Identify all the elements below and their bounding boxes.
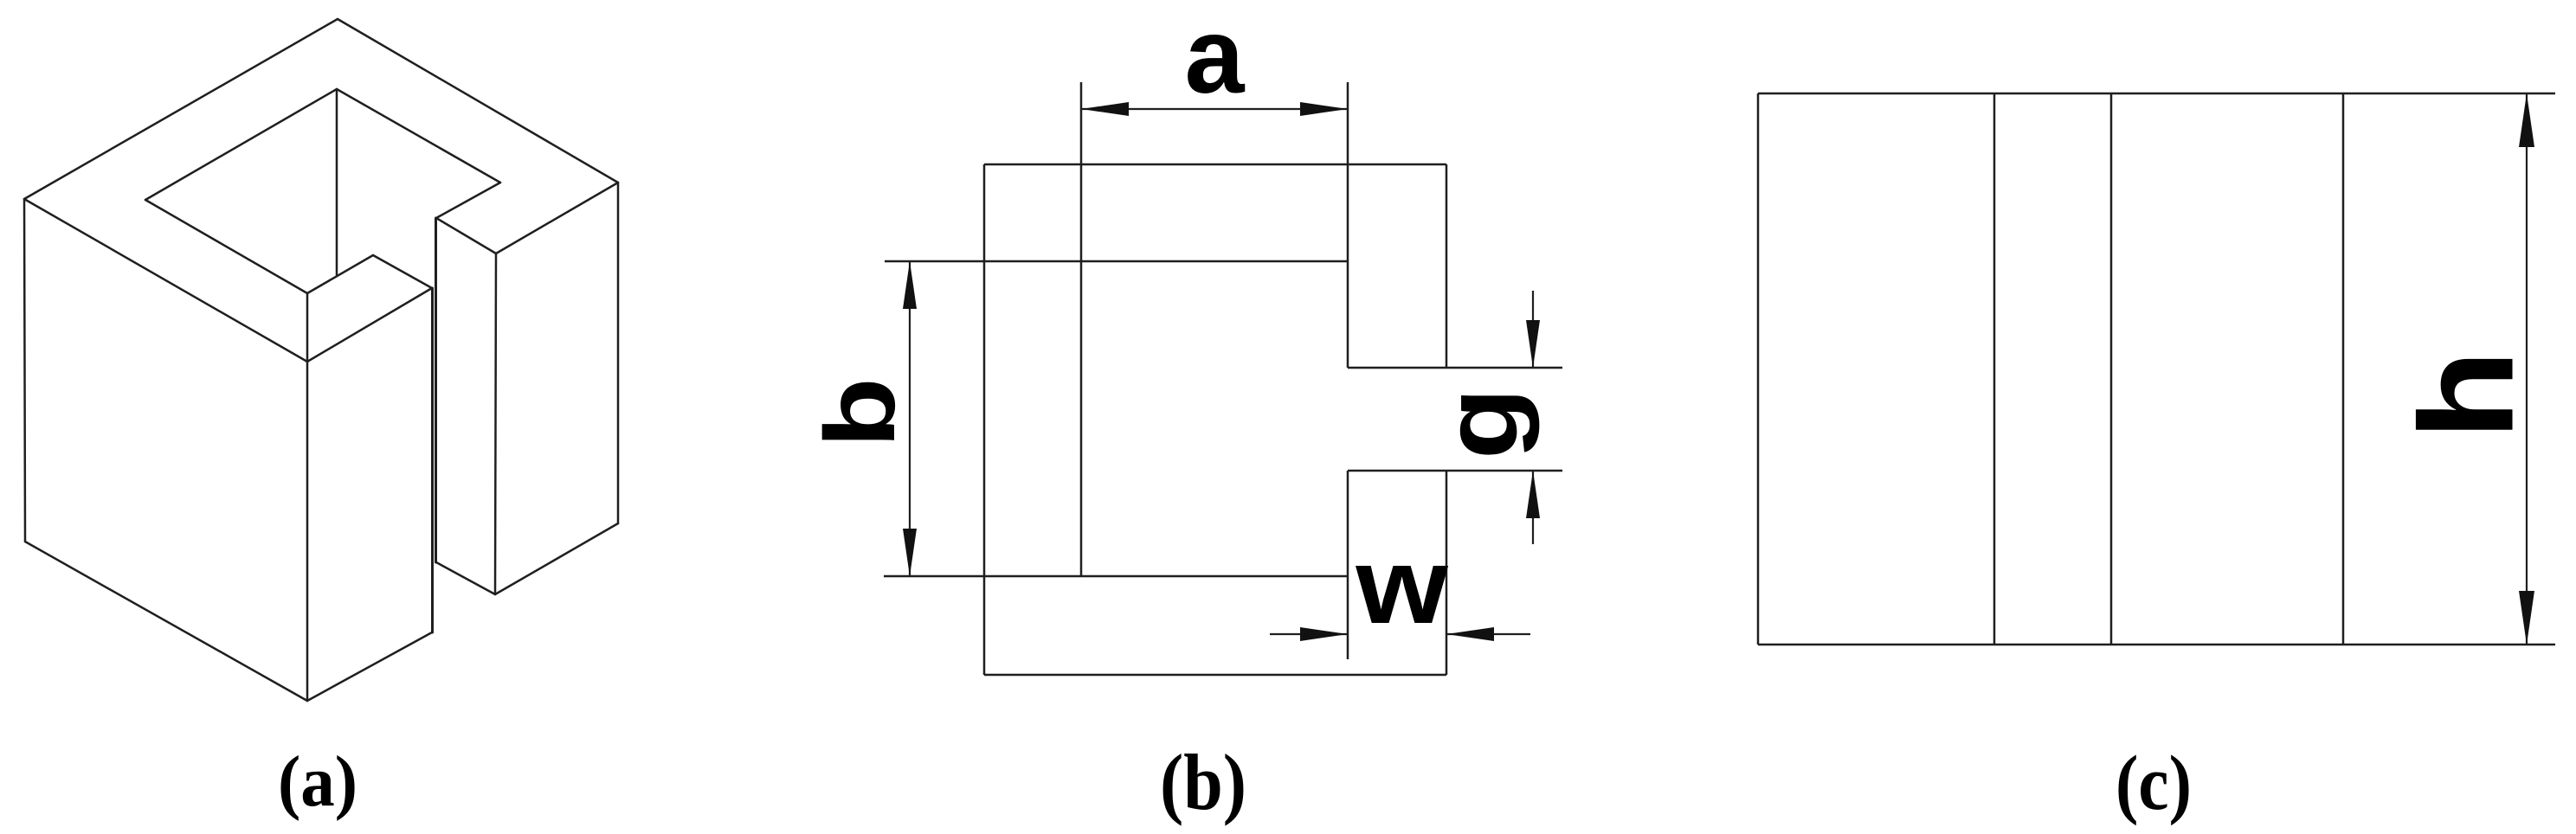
dimension w right tail line (1446, 633, 1530, 635)
hole right edge below slot (307, 255, 373, 293)
dimension w right arrowhead (1446, 627, 1494, 641)
side view right face edge (2342, 93, 2345, 645)
dimension a left arrowhead (1081, 102, 1129, 116)
dimension h line (2526, 93, 2528, 645)
cube right vertical edge (617, 183, 620, 523)
hole top edge back-right (337, 89, 500, 183)
side view left edge (1757, 93, 1760, 645)
dimension g upper arrowhead (1526, 320, 1540, 368)
slot near cut outer vertical edge (495, 253, 496, 594)
plan hole right edge below gap with w extension (1347, 471, 1349, 659)
hole inner back vertical edge (336, 89, 338, 275)
side view top edge with h extension (1758, 93, 2555, 95)
svg-text:a: a (1185, 0, 1246, 116)
svg-text:(c): (c) (2116, 740, 2192, 826)
side view bottom edge with h extension (1758, 644, 2555, 646)
dimension h top arrowhead (2519, 93, 2534, 147)
plan outer bottom edge (984, 674, 1446, 677)
svg-text:(b): (b) (1160, 738, 1246, 826)
cube outer top edge T-R (338, 19, 618, 183)
hole top edge front-left (145, 200, 307, 293)
plan hole left edge with a extension (1080, 82, 1083, 576)
plan hole bottom edge with b extension (884, 575, 1348, 578)
slot top near cut edge (436, 218, 496, 253)
dimension h bottom arrowhead (2519, 591, 2534, 645)
cube bottom-left edge (25, 542, 307, 701)
cube top face front-right edge lower segment (307, 288, 432, 362)
plan outer top edge (984, 164, 1446, 166)
dimension w left tail line (1270, 633, 1348, 635)
plan hole top edge with b extension (885, 260, 1348, 263)
svg-text:b: b (805, 377, 916, 447)
cube front vertical edge (306, 293, 309, 701)
slot near cut inner vertical edge (435, 218, 437, 562)
hole top edge back-left (145, 89, 337, 200)
slot bottom near cut edge (436, 562, 495, 594)
slot far cut outer vertical edge (431, 288, 434, 632)
side view slot left edge (1993, 93, 1996, 645)
plan outer right edge below gap (1446, 471, 1448, 675)
cube bottom front edge left of slot (307, 632, 432, 701)
plan outer right edge above gap (1446, 164, 1448, 368)
svg-text:(a): (a) (278, 741, 357, 822)
dimension a right arrowhead (1300, 102, 1348, 116)
cube outer top edge T-L (24, 19, 338, 199)
dimension a line (1081, 108, 1348, 110)
cube top face front-left edge (24, 199, 307, 362)
svg-text:g: g (1422, 388, 1540, 459)
cube top face front-right edge upper segment (496, 183, 618, 253)
plan gap bottom edge with g extension (1348, 470, 1562, 472)
dimension b top arrowhead (903, 261, 917, 309)
cube bottom front edge right of slot (495, 523, 618, 594)
dimension b bottom arrowhead (903, 529, 917, 576)
svg-text:h: h (2392, 350, 2541, 439)
cube left vertical edge (24, 199, 25, 542)
side view slot right edge (2110, 93, 2113, 645)
dimension g lower tail line (1532, 471, 1534, 544)
svg-text:w: w (1355, 525, 1449, 646)
dimension g upper tail line (1532, 291, 1534, 368)
dimension g lower arrowhead (1526, 471, 1540, 518)
dimension w left arrowhead (1300, 627, 1348, 641)
dimension b line (909, 261, 911, 576)
plan outer left edge (983, 164, 986, 675)
slot top far cut edge (373, 255, 432, 288)
hole right edge above slot (436, 183, 500, 218)
plan hole right edge above gap with a extension (1347, 82, 1349, 368)
plan gap top edge with g extension (1348, 367, 1562, 369)
